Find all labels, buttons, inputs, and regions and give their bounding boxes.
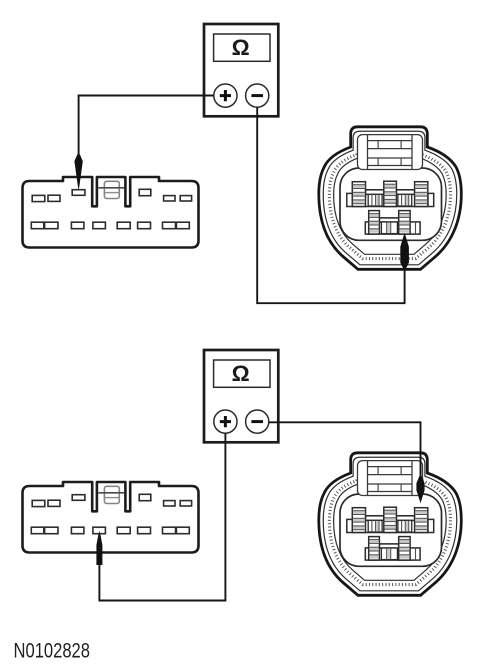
C4 terminal row 2	[365, 537, 420, 561]
C2 inner contour 2	[334, 142, 447, 255]
C1 center latch	[98, 181, 124, 198]
ohmmeter M2 positive terminal (+)	[214, 410, 237, 433]
C4 top tab latch ladder	[358, 461, 423, 496]
ohmmeter M2 display window	[214, 360, 270, 387]
C4 inner contour 2	[334, 468, 447, 581]
C2 inner contour	[323, 131, 457, 265]
connector C4 (oval weatherproof connector) outer shell	[319, 453, 462, 596]
C2 seal ring (hatched)	[329, 137, 450, 258]
C2 terminal cavity	[340, 168, 442, 240]
probe arrow at C4 terminal (row 1 right)	[416, 476, 424, 503]
connector C1 (14-cavity flat connector) body outline with lock slots	[23, 177, 199, 248]
C3 pin row 1	[32, 494, 191, 506]
C4 terminal cavity	[340, 494, 442, 566]
ohmmeter M1 body	[204, 24, 278, 116]
connector C3 (14-cavity flat connector) body outline with lock slots	[23, 482, 199, 553]
probe arrow at C3 pin (row 2 center)	[96, 531, 102, 565]
wire: M2 negative lead to connector C4 terminal (row 1 right)	[269, 422, 421, 480]
C3 pin row 2	[31, 527, 189, 534]
C4 terminal row 1	[347, 507, 434, 532]
ohmmeter M2 body	[204, 350, 278, 442]
wire: M1 negative lead to connector C2 terminal (row 2 right)	[257, 107, 404, 303]
C2 terminal row 1	[347, 181, 434, 206]
C1 pin row 2	[31, 222, 189, 229]
ohmmeter M2 negative terminal (&#8722;)	[246, 410, 269, 433]
svg-text:Ω: Ω	[232, 361, 250, 386]
ohmmeter M1 negative terminal (&#8722;)	[246, 84, 269, 107]
C3 center latch	[98, 486, 124, 503]
C4 seal ring (hatched)	[329, 463, 450, 584]
connector C2 (oval weatherproof connector) outer shell	[319, 127, 462, 269]
svg-text:Ω: Ω	[232, 35, 250, 60]
C2 top tab latch ladder	[358, 135, 423, 170]
probe arrow at C1 pin 3 (row 1)	[74, 154, 82, 190]
probe arrow at C2 terminal (row 2 right)	[400, 233, 409, 269]
wire: M1 positive lead to connector C1 pin 3 (row 1)	[79, 96, 214, 161]
C2 terminal row 2	[365, 211, 420, 235]
ohmmeter M1 display window	[214, 34, 270, 61]
ohmmeter M1 positive terminal (+)	[214, 84, 237, 107]
wire: M2 positive lead to connector C3 pin (row 2 center)	[99, 433, 225, 600]
svg-text:N0102828: N0102828	[14, 640, 91, 663]
C1 pin row 1	[32, 189, 191, 201]
C4 inner contour	[323, 457, 457, 591]
